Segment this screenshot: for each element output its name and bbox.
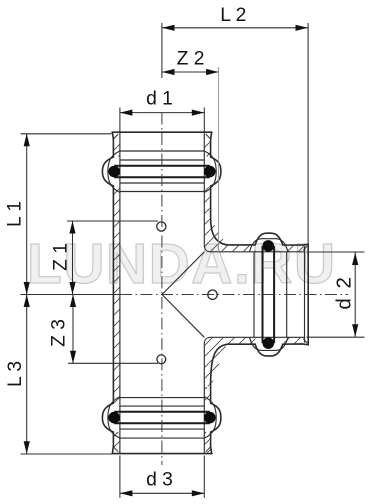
Z1 top extension line xyxy=(67,220,158,222)
interior crease line bottom 1 xyxy=(120,437,204,439)
right outer wall + branch outline xyxy=(211,132,309,453)
d1 left extension line xyxy=(119,108,121,133)
Z3 dimension line xyxy=(72,295,74,364)
Z1 top arrow xyxy=(69,221,75,234)
L1 top extension line xyxy=(21,133,112,135)
L2 right extension line xyxy=(307,23,309,244)
O-ring dot branch-top xyxy=(263,240,275,252)
branch end inner face xyxy=(304,246,306,342)
chamfer bottom-left xyxy=(114,447,118,452)
O-ring dot bottom-right xyxy=(204,412,216,424)
right inner groove bulge bottom xyxy=(204,397,216,439)
branch interior crease line 1 xyxy=(253,252,255,337)
left outer wall xyxy=(102,132,113,453)
svg-text:L 2: L 2 xyxy=(220,5,246,26)
svg-text:d 1: d 1 xyxy=(146,89,173,110)
chamfer top-left xyxy=(114,134,118,139)
L2 left reference line xyxy=(161,23,163,78)
left inner groove bulge top xyxy=(108,151,120,193)
branch interior crease line 2 xyxy=(286,252,288,337)
hatch: branch bottom wall left xyxy=(227,338,256,344)
branch inner top fillet xyxy=(204,240,211,252)
d2 dimension line xyxy=(354,253,356,337)
viewing hole top xyxy=(157,222,166,231)
O-ring dot top-right xyxy=(204,166,216,178)
O-ring dot branch-bottom xyxy=(263,337,275,349)
L2 left arrow xyxy=(162,25,175,31)
Z3 bottom extension line xyxy=(68,362,158,364)
O-ring dot top-left xyxy=(108,166,120,178)
branch inner bulge bottom xyxy=(250,337,289,350)
Z3 top arrow xyxy=(70,295,76,308)
L2 right arrow xyxy=(296,25,309,31)
d3 right arrow xyxy=(192,490,205,496)
hatch: upper junction corner xyxy=(205,219,227,251)
left inner wall xyxy=(119,132,121,453)
Z1 dimension line xyxy=(72,221,74,295)
interior crease line top 3 xyxy=(120,182,204,184)
svg-text:d 3: d 3 xyxy=(146,470,173,491)
d2 bottom extension line xyxy=(307,336,365,338)
Z2 left arrow xyxy=(162,69,175,75)
L3 bottom extension line xyxy=(21,453,112,455)
Z2 dimension line xyxy=(162,71,219,73)
hatch: right wall junction band xyxy=(204,187,210,218)
svg-text:L 3: L 3 xyxy=(5,361,26,387)
hatch: right wall upper band xyxy=(204,140,210,157)
centerline vertical xyxy=(161,113,163,466)
svg-text:d 2: d 2 xyxy=(333,275,356,310)
chamfer top-right xyxy=(206,134,210,139)
d1 right extension line xyxy=(203,108,205,133)
chamfer branch-top xyxy=(303,246,307,250)
d3 dimension line xyxy=(120,492,204,494)
O-ring tangent thick lines xyxy=(114,166,274,424)
L2 dimension line xyxy=(162,27,308,29)
interior crease line top 4 xyxy=(120,191,204,193)
svg-text:Z 3: Z 3 xyxy=(49,319,70,347)
tee body: main outlines xyxy=(102,132,308,453)
hatch: left wall lower band xyxy=(114,432,120,453)
bottom groove tangents xyxy=(114,411,210,413)
hatch: left wall middle band xyxy=(114,187,120,404)
svg-text:Z 1: Z 1 xyxy=(51,243,72,271)
d2 top extension line xyxy=(307,251,365,253)
d3 right extension line xyxy=(203,456,205,498)
svg-text:Z 2: Z 2 xyxy=(177,49,205,70)
d1 right arrow xyxy=(192,110,205,116)
viewing hole bottom xyxy=(157,355,166,364)
hatch: lower junction corner xyxy=(205,338,227,386)
tee body: inner lines xyxy=(108,132,305,453)
d3 left extension line xyxy=(119,456,121,498)
right inner wall lower xyxy=(203,349,205,454)
viewing hole branch xyxy=(208,290,217,299)
d1 dimension line xyxy=(120,112,204,114)
d2 top arrow xyxy=(352,253,358,266)
Z2 right arrow xyxy=(206,69,219,75)
d3 left arrow xyxy=(120,490,132,496)
chamfer branch-bottom xyxy=(303,339,307,343)
top end face xyxy=(112,131,212,133)
interior crease line bottom 3 xyxy=(120,405,204,407)
O-ring dot bottom-left xyxy=(108,412,120,424)
hatch: right wall bottom band xyxy=(204,432,210,453)
L1 bottom arrow xyxy=(24,282,30,295)
branch inner bottom fillet xyxy=(204,337,211,349)
hatch: right wall lower band xyxy=(204,387,210,403)
Z1 bottom arrow xyxy=(69,282,75,295)
left inner groove bulge bottom xyxy=(108,397,120,439)
center extension line left xyxy=(21,294,121,296)
interior crease line bottom 4 xyxy=(120,397,204,399)
interior crease line bottom 2 xyxy=(120,428,204,430)
right inner groove bulge top xyxy=(204,151,216,193)
Z2 right extension line xyxy=(218,67,220,252)
centerline horizontal xyxy=(120,294,348,296)
branch inner bulge top xyxy=(250,239,289,252)
svg-text:L 1: L 1 xyxy=(4,201,25,227)
interior crease line top 1 xyxy=(120,150,204,152)
right inner wall upper xyxy=(203,132,205,240)
top groove tangents xyxy=(114,165,210,167)
cone line lower xyxy=(162,295,204,338)
d1 left arrow xyxy=(120,110,132,116)
cone line upper xyxy=(162,252,204,295)
branch inner top line xyxy=(211,251,305,253)
L1 top arrow xyxy=(24,134,30,147)
L3 bottom arrow xyxy=(24,441,30,454)
interior crease line top 2 xyxy=(120,159,204,161)
hatch: left wall upper band xyxy=(114,140,120,157)
d2 bottom arrow xyxy=(352,324,358,337)
bottom end face xyxy=(112,453,212,455)
chamfer bottom-right xyxy=(206,447,210,452)
L3 dimension line xyxy=(26,295,28,454)
hatch: branch top wall right xyxy=(284,245,305,251)
L3 top arrow xyxy=(24,295,30,308)
branch groove tangents xyxy=(262,246,264,343)
hatch: branch top wall left xyxy=(227,245,256,251)
L1 dimension line xyxy=(26,134,28,295)
branch inner bottom line xyxy=(211,336,305,338)
chamfer marks xyxy=(114,134,307,452)
hatch: branch bottom wall right xyxy=(284,338,305,344)
Z3 bottom arrow xyxy=(70,351,76,364)
